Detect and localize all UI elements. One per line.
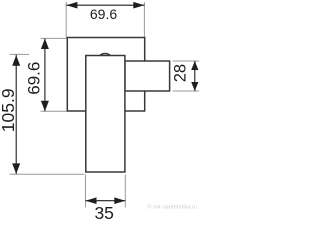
svg-text:105.9: 105.9	[0, 88, 18, 132]
svg-text:28: 28	[171, 64, 189, 82]
svg-text:69.6: 69.6	[25, 62, 44, 95]
svg-text:69.6: 69.6	[90, 6, 117, 22]
svg-text:35: 35	[94, 203, 113, 222]
svg-text:© mir-santehnika.ru: © mir-santehnika.ru	[147, 204, 197, 211]
